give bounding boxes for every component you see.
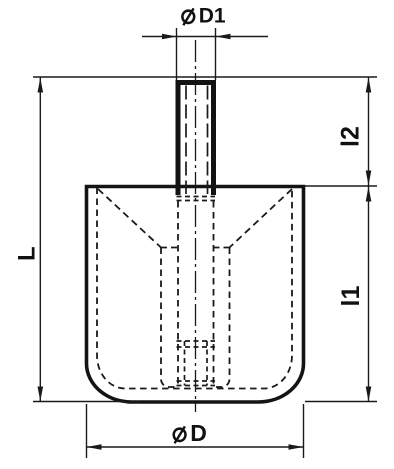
nut bottom line 2 — [177, 385, 216, 387]
nut top line 2 — [177, 346, 216, 348]
dim D label diameter symbol — [174, 429, 186, 441]
stud outline — [178, 83, 214, 196]
thread engagement line 2 — [177, 200, 216, 202]
cavity shoulder left — [161, 247, 178, 249]
cavity wall right — [214, 248, 230, 388]
svg-text:D1: D1 — [199, 4, 226, 27]
dim D1 arrow right — [216, 34, 231, 40]
dim D1 arrow left — [162, 34, 177, 40]
thread engagement line 1 — [177, 196, 216, 198]
body bottom extension right — [305, 401, 377, 403]
cavity diagonal right — [230, 189, 293, 248]
nut bottom line 1 — [177, 380, 216, 382]
hidden stud wall left — [177, 201, 179, 386]
cavity shoulder right — [214, 247, 230, 249]
dim D arrow right — [289, 444, 304, 450]
svg-text:L: L — [13, 246, 40, 261]
stud thread line right — [207, 86, 209, 195]
dim l1 arrow top — [366, 187, 372, 202]
nut thread left — [184, 341, 186, 386]
svg-text:l2: l2 — [337, 126, 365, 147]
svg-text:D: D — [190, 420, 207, 446]
body inner dashed contour — [97, 188, 292, 389]
hidden stud wall right — [213, 201, 215, 386]
body top extension right — [305, 185, 377, 187]
dim l1 line — [368, 187, 370, 402]
dim l2 arrow top — [366, 78, 372, 93]
dim D1 extension left — [176, 28, 178, 80]
dim D line — [87, 446, 304, 448]
dim l2 line — [368, 78, 370, 186]
top extension line — [33, 76, 377, 78]
nut top line 1 — [177, 340, 216, 342]
dim L arrow top — [38, 78, 44, 93]
dim L line — [39, 78, 41, 402]
centerline — [195, 40, 197, 412]
dim D1 line — [142, 36, 268, 38]
body outline — [87, 187, 304, 403]
cavity wall left — [161, 248, 177, 388]
dim L bottom extension — [33, 401, 140, 403]
dim D1 extension right — [215, 28, 217, 80]
dim l1 arrow bottom — [366, 387, 372, 402]
svg-text:l1: l1 — [337, 286, 365, 307]
dim L arrow bottom — [38, 387, 44, 402]
dim D extension left — [86, 404, 88, 458]
stud thread line left — [185, 86, 187, 195]
dim l2 arrow bottom — [366, 171, 372, 186]
dim D extension right — [303, 404, 305, 458]
dim D arrow left — [87, 444, 102, 450]
dim D1 label diameter symbol — [182, 11, 194, 23]
cavity diagonal left — [98, 189, 161, 248]
nut thread right — [206, 341, 208, 386]
